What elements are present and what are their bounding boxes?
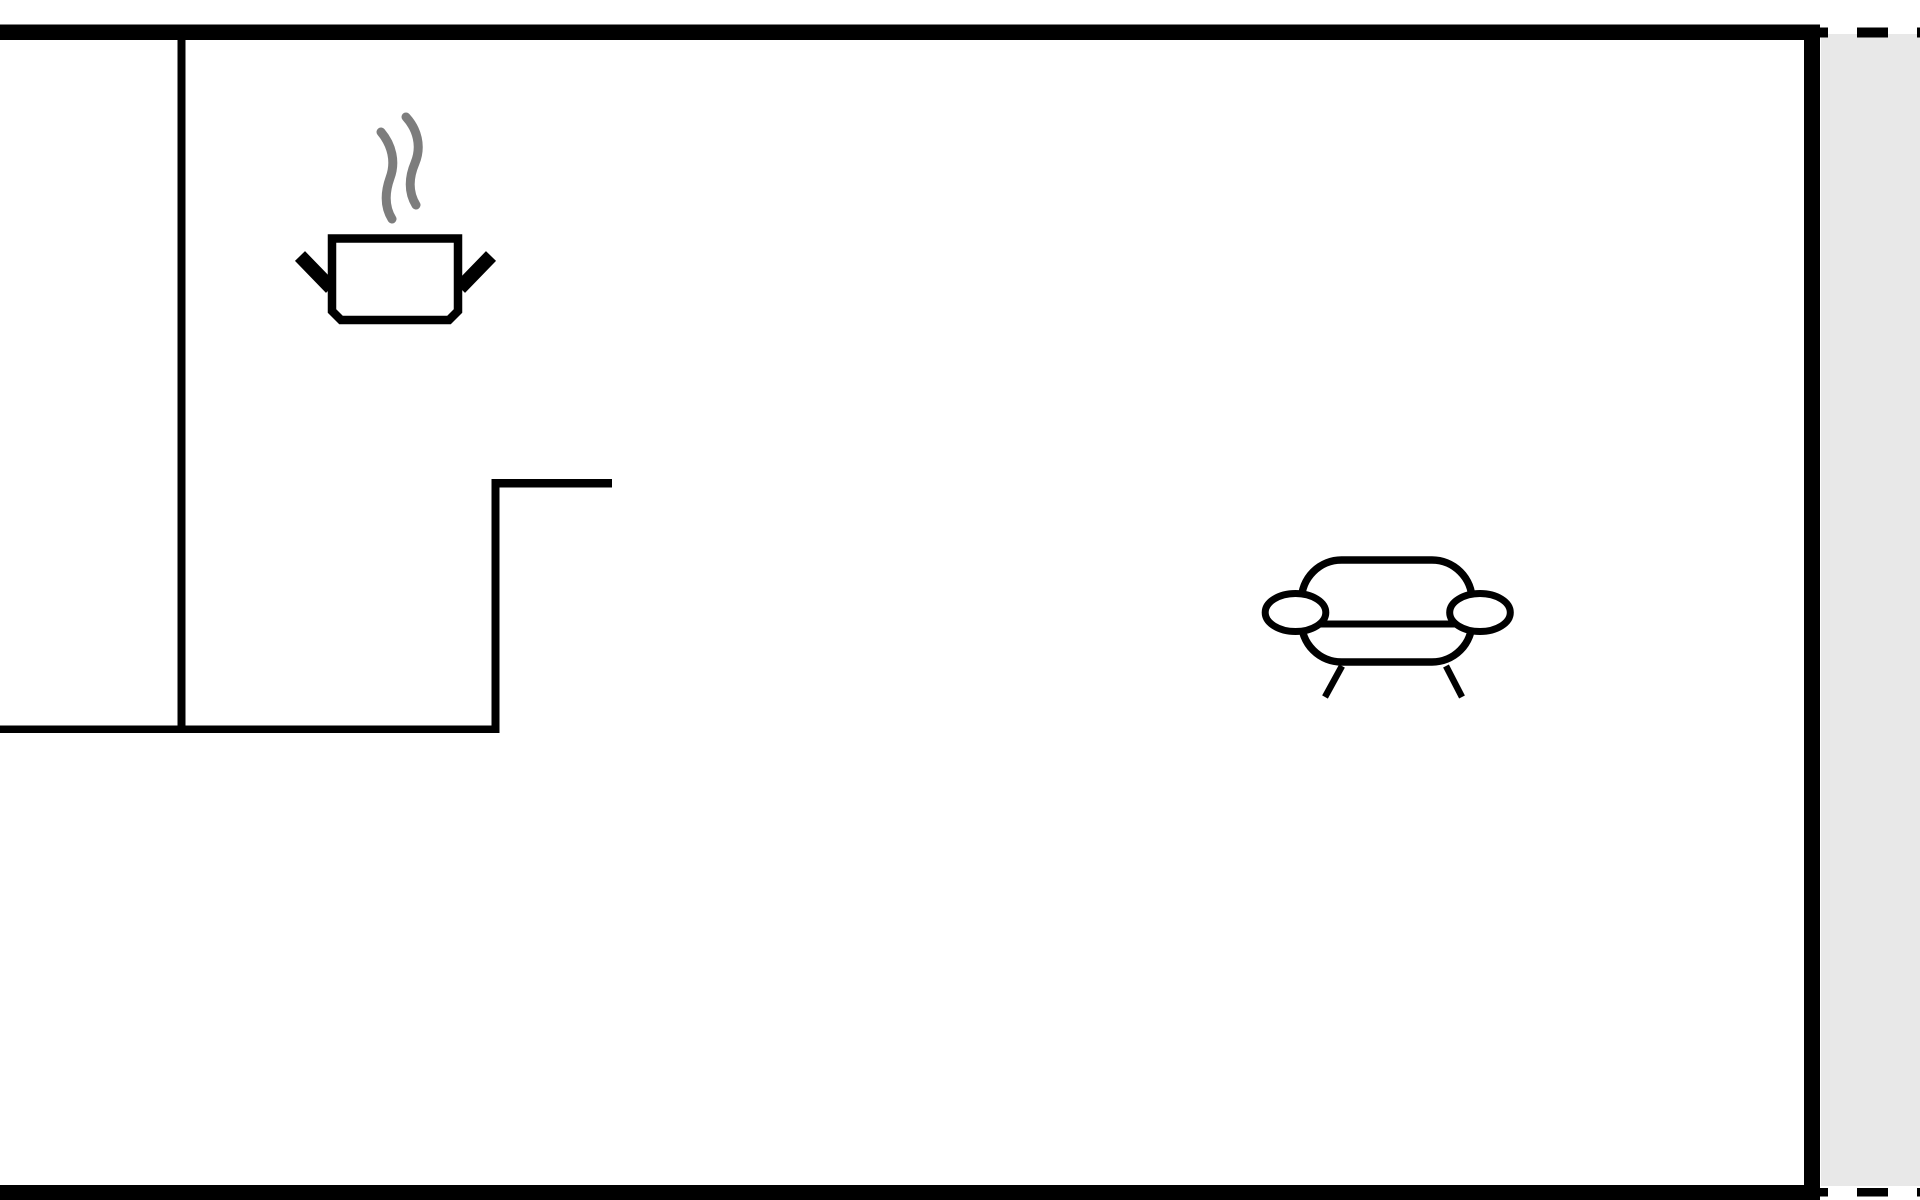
sofa right armrest (1450, 594, 1511, 632)
wall right (1804, 25, 1820, 1200)
stove pot body (332, 239, 458, 321)
wall interior L horizontal (492, 479, 613, 488)
wall interior kitchen bottom (0, 726, 500, 734)
wall interior L vertical (492, 479, 500, 733)
stove pot left handle (300, 256, 331, 288)
wall interior left vertical (178, 40, 186, 733)
balcony gray area (1821, 34, 1920, 1186)
sofa left leg (1325, 666, 1342, 697)
sofa seat line (1300, 621, 1473, 628)
stove pot steam left (381, 132, 393, 219)
sofa left armrest (1265, 594, 1326, 632)
dashed balcony edge top (1820, 28, 1920, 38)
stove pot steam right (406, 117, 418, 205)
dashed balcony edge bottom (1820, 1188, 1920, 1197)
sofa body (1302, 560, 1473, 662)
sofa right leg (1446, 666, 1462, 697)
wall bottom (0, 1185, 1820, 1200)
stove pot right handle (460, 256, 491, 288)
wall top (0, 25, 1820, 41)
